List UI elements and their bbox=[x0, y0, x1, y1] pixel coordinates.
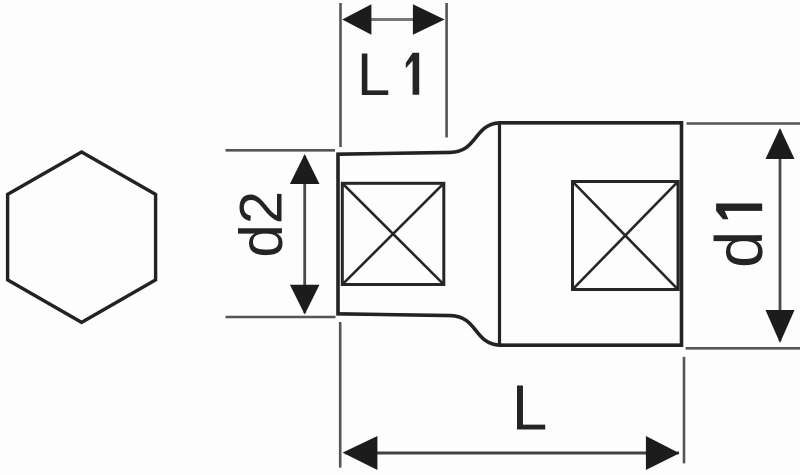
L1 arrowhead right bbox=[413, 4, 445, 35]
L extension line left bbox=[339, 322, 342, 468]
d1 extension line bottom bbox=[686, 347, 800, 350]
d2 dimension line bbox=[303, 156, 306, 313]
X-box square drive (body section) bbox=[573, 182, 679, 290]
L arrowhead right bbox=[646, 436, 680, 470]
svg-text:L: L bbox=[357, 41, 390, 108]
L1 extension line right bbox=[445, 3, 448, 138]
d2 extension line bottom bbox=[226, 316, 336, 319]
body left edge line bbox=[498, 123, 501, 345]
L extension line right bbox=[683, 357, 686, 464]
socket body outline (side view) bbox=[338, 123, 682, 345]
L dimension line bbox=[345, 452, 679, 455]
svg-text:d2: d2 bbox=[228, 191, 295, 258]
L1 arrowhead left bbox=[342, 4, 371, 35]
d1 arrowhead down bbox=[766, 310, 795, 343]
d1 arrowhead up bbox=[766, 128, 795, 159]
d2 arrowhead up bbox=[290, 154, 320, 184]
L1 extension line left bbox=[339, 3, 342, 147]
X-box square drive (neck section) bbox=[342, 183, 444, 284]
label 1 (of L 1) custom glyph bbox=[406, 53, 419, 95]
svg-text:d: d bbox=[702, 231, 777, 268]
d2 arrowhead down bbox=[290, 285, 320, 315]
d2 extension line top bbox=[226, 149, 336, 152]
svg-text:L: L bbox=[512, 372, 548, 444]
L1 dimension line bbox=[370, 18, 414, 21]
d1 dimension line bbox=[779, 130, 782, 341]
label d1 (rotated): d as text plus custom 1 glyph bbox=[702, 204, 777, 269]
L arrowhead left bbox=[343, 436, 378, 470]
d1 extension line top bbox=[687, 122, 800, 125]
hexagon socket opening (front view) bbox=[8, 152, 156, 322]
